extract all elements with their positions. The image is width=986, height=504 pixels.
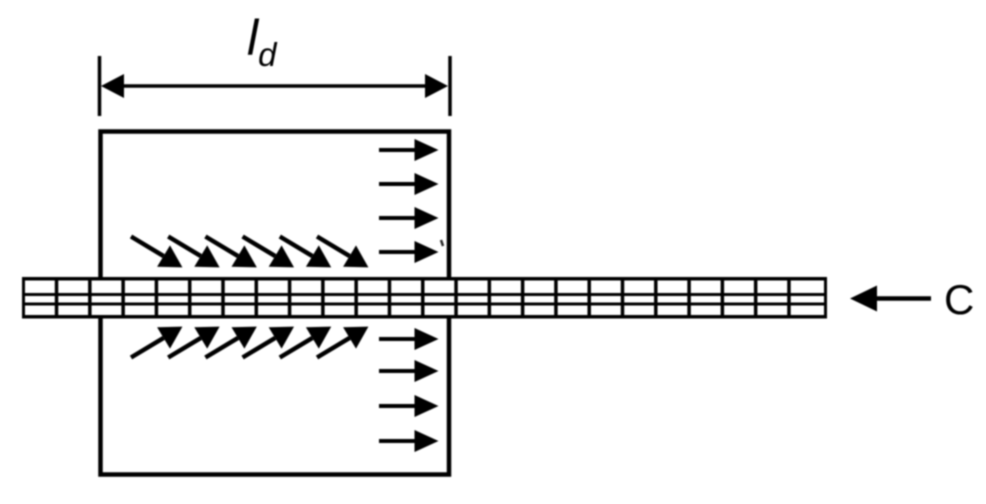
small stray mark near right face (441, 240, 443, 246)
arrow C (inflow to drain) (850, 286, 931, 312)
dimension tick left (98, 56, 102, 116)
outflow arrows at right face, below drain (379, 328, 439, 452)
flow arrows toward drain, upper row (131, 237, 368, 268)
flow arrows toward drain, lower row (131, 327, 368, 358)
dimension tick right (448, 56, 452, 116)
svg-text:ld: ld (247, 10, 278, 73)
dimension line l_d (double-headed arrow) (101, 74, 448, 98)
box (soil block outline) (101, 132, 450, 475)
drain C (gridded strip) (22, 277, 827, 319)
outflow arrows at right face, above drain (379, 139, 439, 263)
svg-text:C: C (944, 276, 974, 323)
